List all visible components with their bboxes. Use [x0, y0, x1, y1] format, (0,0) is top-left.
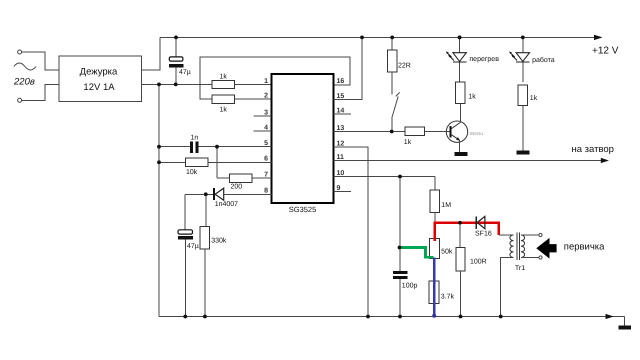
svg-text:1M: 1M	[441, 202, 451, 209]
svg-text:10: 10	[337, 170, 345, 177]
svg-text:Дежурка: Дежурка	[80, 66, 118, 77]
svg-text:1: 1	[264, 78, 268, 85]
svg-text:1n: 1n	[191, 135, 199, 142]
svg-text:220в: 220в	[13, 77, 35, 88]
svg-text:50k: 50k	[441, 247, 453, 255]
svg-text:7: 7	[264, 171, 268, 178]
svg-text:3: 3	[264, 109, 268, 116]
svg-text:100p: 100p	[402, 282, 418, 289]
svg-text:работа: работа	[532, 56, 555, 64]
svg-text:1k: 1k	[468, 92, 476, 100]
svg-text:100R: 100R	[470, 258, 487, 265]
svg-text:47µ: 47µ	[187, 243, 199, 250]
svg-text:14: 14	[337, 107, 345, 114]
svg-text:6: 6	[264, 156, 268, 163]
svg-text:47µ: 47µ	[179, 69, 191, 76]
svg-text:1n4007: 1n4007	[215, 201, 238, 208]
svg-text:2N5551: 2N5551	[469, 131, 484, 136]
svg-text:4: 4	[264, 124, 268, 131]
svg-text:13: 13	[337, 125, 345, 132]
svg-text:8: 8	[264, 188, 268, 195]
svg-text:22R: 22R	[398, 62, 411, 69]
svg-text:330k: 330k	[211, 236, 227, 244]
svg-text:Tr1: Tr1	[515, 265, 525, 272]
svg-text:15: 15	[337, 93, 345, 100]
svg-text:5: 5	[264, 140, 268, 147]
svg-text:2: 2	[264, 92, 268, 99]
svg-text:1k: 1k	[530, 94, 538, 102]
svg-text:первичка: первичка	[564, 242, 605, 253]
svg-text:200: 200	[231, 183, 243, 190]
svg-text:1k: 1k	[404, 138, 412, 146]
svg-text:3.7k: 3.7k	[441, 293, 455, 301]
svg-text:+12 V: +12 V	[592, 46, 619, 57]
svg-text:SF16: SF16	[475, 231, 492, 238]
svg-text:SG3525: SG3525	[289, 205, 317, 214]
svg-text:11: 11	[337, 154, 345, 161]
svg-text:1k: 1k	[220, 72, 228, 80]
svg-text:16: 16	[337, 78, 345, 85]
svg-text:12V 1А: 12V 1А	[83, 82, 115, 93]
svg-text:перегрев: перегрев	[469, 56, 499, 63]
svg-text:9: 9	[337, 185, 341, 192]
svg-text:10k: 10k	[186, 168, 198, 176]
svg-text:1k: 1k	[220, 106, 228, 114]
svg-text:на затвор: на затвор	[572, 144, 614, 155]
svg-text:12: 12	[337, 140, 345, 147]
